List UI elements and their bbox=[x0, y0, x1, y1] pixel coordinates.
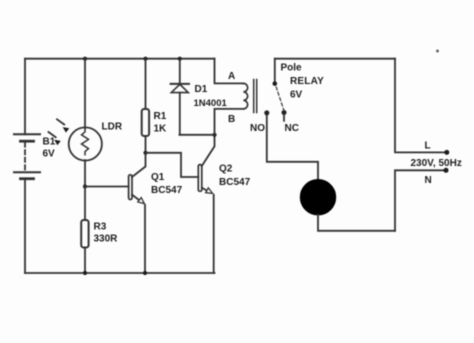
relay coil bbox=[243, 83, 247, 109]
svg-text:RELAY: RELAY bbox=[290, 76, 324, 87]
wire top rail bbox=[25, 58, 215, 60]
lamp bbox=[300, 180, 335, 215]
svg-text:Q1: Q1 bbox=[151, 172, 165, 183]
svg-text:D1: D1 bbox=[195, 84, 208, 95]
svg-text:NC: NC bbox=[285, 123, 299, 134]
svg-text:R3: R3 bbox=[94, 222, 107, 233]
wire NO to lamp bbox=[267, 115, 318, 180]
wire R1 bottom lead bbox=[145, 136, 147, 153]
svg-text:6V: 6V bbox=[43, 149, 56, 160]
svg-text:6V: 6V bbox=[290, 90, 303, 101]
wire L branch bbox=[395, 59, 447, 153]
wire R3 bottom lead bbox=[84, 248, 86, 274]
label B1 6V bbox=[43, 137, 56, 160]
svg-text:Q2: Q2 bbox=[219, 164, 233, 175]
wire relay coil A lead bbox=[215, 59, 244, 84]
node top-R1 junction bbox=[143, 57, 147, 61]
LDR photoresistor bbox=[49, 119, 102, 160]
wire lamp bottom to N rail bbox=[318, 215, 395, 231]
svg-text:LDR: LDR bbox=[102, 122, 123, 133]
relay armature (dashed) bbox=[276, 87, 283, 110]
label D1 1N4001 bbox=[194, 84, 228, 109]
wire LDR bottom lead bbox=[84, 160, 86, 186]
wire Q2 base path bbox=[146, 153, 199, 177]
svg-text:330R: 330R bbox=[94, 234, 119, 245]
label Q1 BC547 bbox=[151, 172, 183, 196]
wire R1 top lead bbox=[145, 59, 147, 109]
relay core bars bbox=[254, 80, 257, 113]
node D1-anode/relay-B/Q2-collector junction bbox=[212, 133, 216, 137]
wire relay pole lead bbox=[274, 59, 276, 83]
svg-text:Pole: Pole bbox=[281, 63, 303, 74]
label Q2 BC547 bbox=[219, 164, 251, 189]
label RELAY 6V bbox=[290, 76, 324, 101]
node LDR/R3/Q1-base junction bbox=[83, 184, 87, 188]
wire bottom rail bbox=[25, 272, 215, 274]
contact NC bbox=[282, 111, 286, 115]
svg-text:B: B bbox=[228, 114, 235, 125]
label R3 330R bbox=[94, 222, 119, 245]
svg-text:L: L bbox=[425, 141, 431, 152]
wire left rail bottom (battery bottom lead) bbox=[24, 180, 26, 273]
svg-text:230V, 50Hz: 230V, 50Hz bbox=[411, 158, 462, 169]
svg-text:BC547: BC547 bbox=[151, 185, 183, 196]
battery B1 bbox=[14, 134, 40, 178]
stray mark bbox=[436, 50, 439, 53]
relay switch pole pivot bbox=[273, 81, 278, 86]
terminal N bbox=[444, 168, 449, 173]
svg-text:A: A bbox=[228, 71, 235, 82]
wire relay coil B lead bbox=[215, 109, 244, 135]
diode D1 bbox=[171, 59, 189, 135]
svg-text:1N4001: 1N4001 bbox=[194, 98, 228, 109]
resistor R1 bbox=[142, 109, 149, 136]
svg-text:1K: 1K bbox=[154, 124, 168, 135]
svg-text:BC547: BC547 bbox=[219, 177, 251, 188]
svg-text:N: N bbox=[425, 175, 432, 186]
terminal L bbox=[444, 150, 449, 155]
wire R3 top lead bbox=[84, 187, 86, 221]
wire Q1 base wire bbox=[85, 186, 129, 188]
node top-LDR junction bbox=[83, 57, 87, 61]
svg-text:R1: R1 bbox=[154, 111, 167, 122]
node R3-bottom junction bbox=[83, 271, 87, 275]
svg-text:B1: B1 bbox=[43, 137, 56, 148]
wire LDR top lead bbox=[84, 59, 86, 129]
contact NO bbox=[265, 111, 269, 115]
node Q1-emitter bottom junction bbox=[143, 271, 147, 275]
svg-text:NO: NO bbox=[250, 123, 265, 134]
node R1/Q1-collector/Q2-base junction bbox=[143, 151, 147, 155]
wire D1 anode to relay-B node bbox=[180, 134, 215, 136]
wire NC stub bbox=[283, 115, 285, 121]
wire top-right rail (pole to L) bbox=[275, 58, 395, 60]
wire left rail top (battery top lead) bbox=[24, 59, 26, 135]
label R1 1K bbox=[154, 111, 168, 135]
resistor R3 bbox=[81, 220, 88, 248]
wire N branch bbox=[395, 170, 446, 231]
transistor Q1 bbox=[129, 153, 146, 273]
node top-D1 junction bbox=[178, 57, 182, 61]
transistor Q2 bbox=[198, 135, 214, 273]
